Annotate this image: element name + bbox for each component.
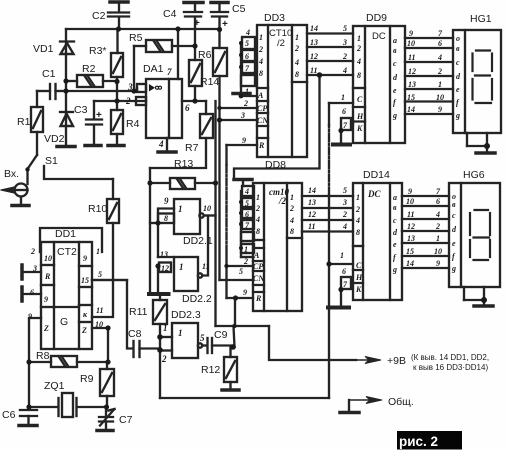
svg-text:K: K [355, 285, 362, 294]
svg-text:2: 2 [294, 44, 299, 53]
svg-text:11: 11 [96, 306, 104, 315]
svg-text:9: 9 [436, 259, 440, 268]
svg-text:9: 9 [28, 312, 32, 321]
svg-text:4: 4 [294, 58, 299, 67]
svg-text:14: 14 [406, 259, 414, 268]
svg-text:DD14: DD14 [363, 169, 390, 181]
svg-text:13: 13 [310, 38, 318, 47]
svg-text:6: 6 [342, 107, 346, 116]
svg-text:2: 2 [255, 204, 260, 213]
svg-text:9: 9 [164, 196, 169, 206]
svg-text:15: 15 [406, 247, 414, 256]
svg-text:11: 11 [202, 262, 210, 271]
svg-text:C: C [357, 95, 363, 104]
svg-text:a: a [393, 36, 397, 45]
svg-text:1: 1 [256, 193, 260, 202]
svg-text:C1: C1 [42, 68, 56, 80]
svg-text:6: 6 [185, 103, 190, 113]
svg-text:g: g [392, 111, 397, 120]
svg-text:1: 1 [357, 34, 361, 43]
svg-text:15: 15 [407, 93, 415, 102]
svg-text:3: 3 [240, 111, 245, 120]
svg-text:DD2.3: DD2.3 [171, 309, 201, 321]
svg-text:G: G [60, 316, 68, 328]
svg-text:4: 4 [342, 222, 347, 231]
svg-text:R8: R8 [36, 350, 50, 362]
svg-text:11: 11 [308, 222, 316, 231]
svg-text:C6: C6 [2, 409, 16, 421]
svg-text:Общ.: Общ. [388, 396, 414, 408]
svg-text:C5: C5 [232, 3, 246, 15]
svg-text:2: 2 [342, 210, 347, 219]
svg-text:g: g [455, 111, 460, 120]
svg-text:2: 2 [243, 257, 248, 266]
svg-text:HG1: HG1 [470, 13, 492, 25]
svg-text:6: 6 [438, 39, 442, 48]
svg-text:DD9: DD9 [366, 12, 387, 24]
svg-text:R3*: R3* [89, 45, 107, 57]
svg-text:e: e [456, 85, 460, 94]
svg-text:6: 6 [342, 267, 346, 276]
svg-text:R2: R2 [82, 63, 96, 75]
svg-text:8: 8 [259, 69, 263, 78]
svg-text:1: 1 [178, 204, 183, 214]
svg-text:10: 10 [203, 204, 211, 213]
svg-text:10: 10 [44, 254, 52, 263]
svg-text:9: 9 [242, 136, 246, 145]
svg-text:4: 4 [437, 53, 442, 62]
svg-text:+: + [222, 19, 228, 30]
svg-text:1: 1 [356, 193, 360, 202]
svg-text:1: 1 [163, 323, 168, 333]
svg-text:5: 5 [200, 333, 205, 343]
svg-text:C7: C7 [119, 414, 133, 426]
svg-text:13: 13 [308, 198, 316, 207]
svg-text:CT2: CT2 [57, 246, 77, 258]
svg-text:R1: R1 [17, 116, 31, 128]
svg-text:R10: R10 [88, 203, 107, 215]
svg-text:R: R [255, 294, 262, 303]
svg-text:4: 4 [289, 216, 294, 225]
svg-text:H: H [355, 273, 363, 282]
svg-text:рис. 2: рис. 2 [399, 434, 438, 449]
svg-text:12: 12 [310, 52, 318, 61]
svg-text:13: 13 [408, 80, 416, 89]
svg-text:4: 4 [356, 57, 361, 66]
svg-text:R12: R12 [201, 364, 220, 376]
svg-text:9: 9 [83, 254, 87, 263]
svg-text:R9: R9 [80, 373, 94, 385]
svg-text:R7: R7 [185, 142, 199, 154]
svg-text:1: 1 [178, 328, 183, 338]
svg-text:H: H [356, 112, 364, 121]
svg-text:14: 14 [308, 186, 316, 195]
svg-text:1: 1 [245, 87, 249, 96]
svg-text:5: 5 [343, 24, 347, 33]
svg-text:5: 5 [245, 199, 249, 208]
svg-text:VD2: VD2 [44, 133, 65, 145]
svg-text:1: 1 [436, 234, 440, 243]
svg-text:12: 12 [407, 222, 415, 231]
svg-text:2: 2 [243, 99, 248, 108]
svg-text:к выв 16 DD3·DD14): к выв 16 DD3·DD14) [413, 363, 488, 372]
svg-text:4: 4 [244, 187, 249, 196]
svg-text:+: + [96, 110, 102, 121]
svg-text:2: 2 [289, 204, 294, 213]
svg-text:2: 2 [355, 205, 360, 214]
svg-text:6: 6 [436, 197, 440, 206]
svg-text:Z: Z [81, 326, 87, 335]
svg-text:9: 9 [409, 29, 413, 38]
svg-text:1: 1 [290, 193, 294, 202]
svg-text:g: g [392, 265, 397, 274]
svg-text:R: R [258, 141, 265, 150]
svg-text:DC: DC [367, 189, 381, 199]
svg-text:8: 8 [164, 214, 168, 223]
svg-text:2: 2 [342, 52, 347, 61]
svg-text:VD1: VD1 [33, 43, 54, 55]
svg-text:DD1: DD1 [55, 228, 76, 240]
svg-text:Вх.: Вх. [4, 168, 19, 180]
svg-text:11: 11 [310, 66, 318, 75]
svg-text:в: в [456, 44, 460, 53]
svg-text:DD2.1: DD2.1 [183, 235, 213, 247]
svg-text:CP: CP [253, 262, 263, 271]
svg-text:6: 6 [30, 288, 34, 297]
svg-text:9: 9 [408, 187, 412, 196]
svg-text:4: 4 [342, 66, 347, 75]
svg-text:11: 11 [408, 53, 416, 62]
svg-text:DA1: DA1 [143, 63, 164, 75]
svg-text:2: 2 [30, 247, 35, 256]
svg-text:4: 4 [435, 210, 440, 219]
svg-text:8: 8 [357, 71, 361, 80]
svg-text:8: 8 [356, 228, 360, 237]
svg-text:CN: CN [253, 274, 265, 283]
svg-text:2: 2 [437, 67, 442, 76]
svg-text:/2: /2 [277, 38, 285, 49]
svg-text:C9: C9 [214, 329, 228, 341]
svg-text:1: 1 [340, 251, 344, 260]
svg-text:g: g [451, 264, 456, 273]
svg-text:1: 1 [244, 245, 248, 254]
svg-text:9: 9 [44, 295, 48, 304]
svg-text:2: 2 [125, 96, 131, 106]
svg-text:Z: Z [43, 324, 49, 333]
svg-text:C3: C3 [74, 104, 88, 116]
svg-text:C2: C2 [92, 10, 106, 22]
svg-text:DD2.2: DD2.2 [182, 293, 212, 305]
svg-text:8: 8 [256, 227, 260, 236]
svg-text:C8: C8 [128, 328, 142, 340]
svg-text:a: a [393, 193, 397, 202]
svg-text:R14: R14 [200, 76, 219, 88]
svg-text:R: R [44, 272, 51, 281]
svg-text:в: в [393, 203, 397, 212]
svg-text:C4: C4 [163, 8, 177, 20]
svg-text:CN: CN [257, 116, 269, 125]
svg-text:6: 6 [245, 52, 249, 61]
svg-text:в: в [393, 46, 397, 55]
svg-text:R13: R13 [174, 158, 193, 170]
svg-text:2: 2 [258, 45, 263, 54]
svg-text:e: e [393, 86, 397, 95]
svg-text:R11: R11 [129, 306, 148, 318]
svg-text:R6: R6 [198, 49, 212, 61]
svg-text:13: 13 [407, 234, 415, 243]
svg-text:/2: /2 [278, 196, 287, 206]
svg-text:CP: CP [257, 104, 267, 113]
svg-text:9: 9 [438, 105, 442, 114]
svg-text:11: 11 [407, 210, 415, 219]
svg-text:12: 12 [161, 264, 169, 273]
svg-text:14: 14 [310, 24, 318, 33]
svg-text:1: 1 [341, 93, 345, 102]
svg-text:5: 5 [239, 267, 243, 276]
svg-text:DC: DC [372, 31, 386, 42]
svg-text:R5: R5 [129, 32, 143, 44]
svg-text:2: 2 [435, 222, 440, 231]
svg-text:c: c [393, 216, 397, 225]
svg-text:3: 3 [342, 198, 347, 207]
svg-text:c: c [456, 58, 460, 67]
svg-text:S1: S1 [45, 155, 58, 167]
svg-text:4: 4 [255, 215, 260, 224]
svg-text:1: 1 [295, 33, 299, 42]
svg-text:12: 12 [308, 210, 316, 219]
svg-text:5: 5 [98, 270, 102, 279]
svg-text:5: 5 [343, 186, 347, 195]
svg-text:A: A [257, 91, 264, 100]
svg-text:DD8: DD8 [265, 159, 286, 171]
svg-text:R4: R4 [126, 118, 140, 130]
svg-text:e: e [452, 239, 456, 248]
svg-text:4: 4 [258, 57, 263, 66]
svg-text:6: 6 [245, 210, 249, 219]
svg-text:3: 3 [127, 82, 133, 92]
svg-text:12: 12 [408, 67, 416, 76]
svg-text:1: 1 [438, 80, 442, 89]
svg-text:13: 13 [160, 250, 168, 259]
svg-text:o: o [456, 34, 460, 43]
svg-text:HG6: HG6 [463, 169, 485, 181]
svg-text:2: 2 [161, 354, 167, 364]
svg-text:8: 8 [290, 227, 294, 236]
svg-text:10: 10 [407, 39, 415, 48]
svg-text:DD3: DD3 [264, 12, 285, 24]
svg-text:7: 7 [167, 67, 172, 77]
svg-text:ZQ1: ZQ1 [44, 380, 65, 392]
svg-text:A: A [253, 251, 260, 260]
svg-text:3: 3 [342, 38, 347, 47]
svg-text:+9В: +9В [387, 355, 406, 367]
svg-text:C: C [356, 261, 362, 270]
svg-text:10: 10 [406, 197, 414, 206]
svg-text:9: 9 [243, 288, 247, 297]
svg-text:в: в [452, 200, 456, 209]
svg-text:10: 10 [436, 93, 444, 102]
svg-text:5: 5 [245, 39, 249, 48]
svg-text:1: 1 [259, 33, 263, 42]
svg-text:+: + [194, 18, 200, 29]
svg-text:K: K [356, 124, 363, 133]
svg-text:c: c [393, 59, 397, 68]
svg-text:4: 4 [355, 216, 360, 225]
svg-text:10: 10 [434, 247, 442, 256]
svg-text:(К выв. 14 DD1, DD2,: (К выв. 14 DD1, DD2, [411, 353, 489, 362]
svg-text:2: 2 [356, 44, 361, 53]
svg-text:4: 4 [158, 139, 164, 149]
svg-text:1: 1 [179, 262, 184, 272]
svg-text:4: 4 [245, 28, 250, 37]
svg-text:8: 8 [295, 70, 299, 79]
svg-text:10: 10 [95, 320, 103, 329]
svg-text:3: 3 [32, 264, 37, 273]
svg-text:15: 15 [81, 276, 89, 285]
svg-text:1: 1 [96, 247, 100, 256]
svg-text:14: 14 [407, 105, 415, 114]
svg-text:e: e [393, 240, 397, 249]
svg-text:c: c [452, 211, 456, 220]
